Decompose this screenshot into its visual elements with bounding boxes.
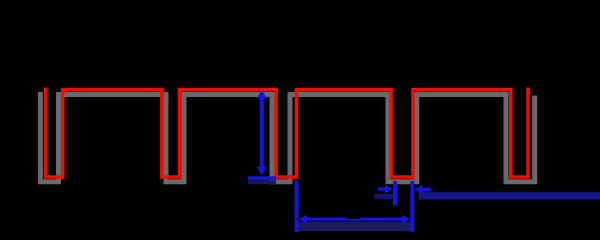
node: amplitude arrow top head <box>257 90 268 98</box>
wire: navy period underline band <box>299 222 414 231</box>
wire: blue vertical extension at x=394.3 (pulse-width left boundary) <box>393 181 397 206</box>
wire: amplitude baseline tick <box>248 176 276 180</box>
wire: gray reference square wave (ideal clock, offset down) <box>40 92 534 182</box>
node: period double arrow (T) <box>299 215 410 224</box>
wire: red jittered square wave signal <box>46 88 529 178</box>
wire: navy shadow under pulse-width left arrow <box>375 194 394 199</box>
node: black label notch (T) over period line <box>347 215 360 219</box>
node: amplitude arrow bottom head <box>257 167 268 175</box>
node: pulse-width left arrow (points right) <box>378 185 393 194</box>
node A: blue amplitude double arrow shaft <box>248 90 276 178</box>
wire: navy leader line to right edge <box>419 192 600 199</box>
node: pulse-width right arrow (points left) <box>414 185 431 194</box>
wire: navy shadow under amplitude baseline tick <box>248 180 276 184</box>
wire: blue vertical extension at x=411.6 (pulse-width right / period right boundary) <box>410 181 414 232</box>
wire: blue vertical extension at x=296.6 (period left boundary) <box>295 181 299 232</box>
